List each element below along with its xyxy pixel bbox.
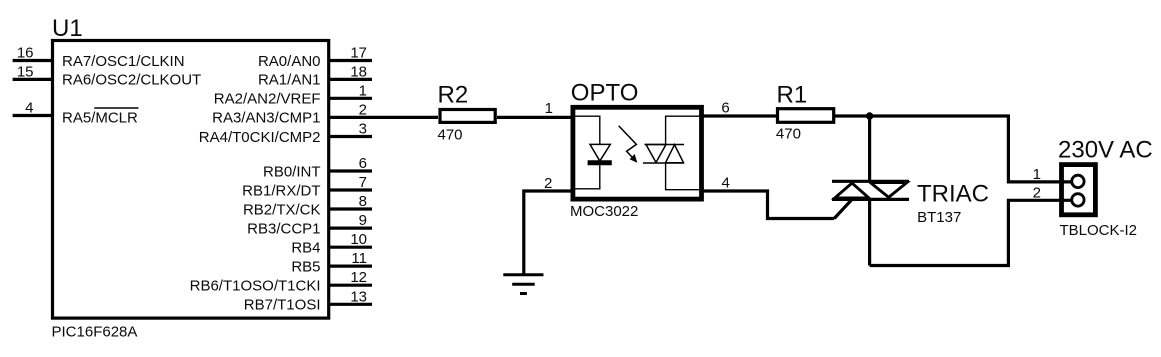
opto inner triac bottom bar <box>643 162 684 164</box>
wire pin 8 (RB2) <box>329 207 372 210</box>
opto inner triac top bar <box>645 144 685 146</box>
svg-text:R1: R1 <box>777 82 808 109</box>
svg-text:12: 12 <box>350 269 367 286</box>
svg-text:3: 3 <box>359 121 367 138</box>
triac Q1 right triangle <box>870 183 906 198</box>
svg-text:RA6/OSC2/CLKOUT: RA6/OSC2/CLKOUT <box>62 72 201 89</box>
svg-text:1: 1 <box>359 82 367 99</box>
svg-text:BT137: BT137 <box>917 209 961 226</box>
svg-text:RA1/AN1: RA1/AN1 <box>258 72 321 89</box>
terminal block J1 body <box>1062 165 1096 215</box>
MCLR overline <box>94 107 138 109</box>
svg-text:RB2/TX/CK: RB2/TX/CK <box>243 201 321 218</box>
svg-text:R2: R2 <box>438 82 469 109</box>
svg-text:2: 2 <box>544 175 552 192</box>
junction dot at R1 output node <box>866 112 873 119</box>
svg-text:11: 11 <box>351 250 367 267</box>
svg-text:17: 17 <box>350 45 367 62</box>
svg-text:RB7/T1OSI: RB7/T1OSI <box>244 297 321 314</box>
svg-text:RA2/AN2/VREF: RA2/AN2/VREF <box>214 91 321 108</box>
opto inner LED anode-cathode lower wire <box>573 164 600 189</box>
wire pin 6 (RB0) <box>329 169 372 172</box>
opto inner right branch top wire <box>666 116 702 144</box>
wire pin 2 (RA3) to R2 <box>329 116 438 119</box>
triac Q1 left triangle <box>835 183 869 198</box>
opto inner triac left triangle <box>646 145 666 163</box>
svg-text:2: 2 <box>1033 184 1041 201</box>
svg-text:RA7/OSC1/CLKIN: RA7/OSC1/CLKIN <box>62 53 185 70</box>
ground symbol <box>503 275 543 294</box>
svg-text:8: 8 <box>359 193 367 210</box>
wire pin 12 (RB6) <box>329 284 372 287</box>
svg-text:PIC16F628A: PIC16F628A <box>52 324 138 341</box>
svg-text:470: 470 <box>776 126 801 143</box>
svg-text:RA4/T0CKI/CMP2: RA4/T0CKI/CMP2 <box>199 129 321 146</box>
svg-text:16: 16 <box>17 45 34 62</box>
opto light arrow zigzag <box>619 126 637 160</box>
svg-text:470: 470 <box>438 127 463 144</box>
svg-text:TBLOCK-I2: TBLOCK-I2 <box>1060 222 1138 239</box>
svg-text:7: 7 <box>359 174 367 191</box>
svg-text:4: 4 <box>722 174 730 191</box>
svg-text:RB3/CCP1: RB3/CCP1 <box>247 220 320 237</box>
svg-text:RB0/INT: RB0/INT <box>263 163 321 180</box>
wire pin 1 (RA2) <box>329 97 372 100</box>
wire pin 15 (RA6) <box>13 78 53 81</box>
svg-text:15: 15 <box>17 63 34 80</box>
wire triac MT1 to bottom rail <box>868 199 871 265</box>
svg-text:4: 4 <box>25 100 33 117</box>
terminal block hole 2 <box>1072 194 1084 206</box>
opto LED cathode bar <box>588 160 612 165</box>
svg-text:RA3/AN3/CMP1: RA3/AN3/CMP1 <box>212 110 320 127</box>
svg-text:9: 9 <box>359 212 367 229</box>
triac Q1 top bar <box>832 180 909 183</box>
svg-text:6: 6 <box>721 100 729 117</box>
chip U1 body <box>53 41 329 319</box>
svg-text:RB6/T1OSO/T1CKI: RB6/T1OSO/T1CKI <box>190 278 321 295</box>
wire junction to triac MT2 <box>868 116 871 181</box>
wire pin 18 (RA1) <box>329 78 372 81</box>
svg-text:10: 10 <box>350 231 367 248</box>
wire OPTO pin 4 to triac gate <box>704 191 835 219</box>
wire pin 16 (RA7) <box>13 59 53 62</box>
triac Q1 bottom bar <box>832 198 909 201</box>
bottom rail wire <box>870 200 1072 265</box>
triac gate lead <box>834 199 852 218</box>
svg-text:13: 13 <box>350 288 367 305</box>
svg-text:RA0/AN0: RA0/AN0 <box>258 53 321 70</box>
resistor R2 body <box>440 110 495 123</box>
wire pin 13 (RB7) <box>329 303 372 306</box>
resistor R1 body <box>778 109 834 123</box>
wire pin 9 (RB3) <box>329 227 372 230</box>
wire pin 3 (RA4) <box>329 135 372 138</box>
svg-text:1: 1 <box>545 100 553 117</box>
wire OPTO pin 6 to R1 <box>701 114 776 117</box>
svg-text:TRIAC: TRIAC <box>917 180 989 207</box>
wire OPTO pin 2 to ground <box>524 191 571 275</box>
svg-text:18: 18 <box>350 63 367 80</box>
wire pin 10 (RB4) <box>329 246 372 249</box>
svg-text:RB1/RX/DT: RB1/RX/DT <box>242 182 320 199</box>
terminal block hole 1 <box>1072 175 1084 187</box>
svg-text:1: 1 <box>1033 166 1041 183</box>
svg-text:RB4: RB4 <box>291 240 320 257</box>
optocoupler U2 box <box>573 107 702 199</box>
opto LED triangle <box>590 144 610 161</box>
svg-text:OPTO: OPTO <box>571 80 639 107</box>
svg-text:2: 2 <box>359 101 367 118</box>
opto inner left branch wire <box>573 116 600 145</box>
svg-text:MOC3022: MOC3022 <box>570 203 638 220</box>
opto inner right branch bottom wire <box>666 163 702 190</box>
svg-text:RA5/MCLR: RA5/MCLR <box>62 109 138 126</box>
svg-text:230V AC: 230V AC <box>1058 136 1153 163</box>
wire pin 4 (RA5) <box>13 114 53 117</box>
wire R1 to terminal block pin 1 corner <box>835 116 1072 182</box>
opto light arrowhead <box>630 154 638 163</box>
wire R2 to OPTO pin 1 <box>497 116 571 119</box>
svg-text:RB5: RB5 <box>291 258 320 275</box>
svg-text:6: 6 <box>359 155 367 172</box>
opto inner triac right triangle <box>666 145 684 163</box>
wire pin 7 (RB1) <box>329 188 372 191</box>
wire pin 17 (RA0) <box>329 59 372 62</box>
wire pin 11 (RB5) <box>329 265 372 268</box>
svg-text:U1: U1 <box>52 15 83 42</box>
